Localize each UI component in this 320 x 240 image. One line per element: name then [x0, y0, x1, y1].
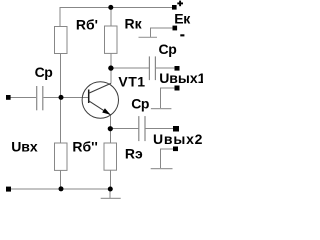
svg-text:Uвых1: Uвых1: [159, 70, 203, 86]
svg-text:Rб'': Rб'': [72, 139, 97, 155]
svg-text:Cр: Cр: [159, 41, 177, 57]
svg-text:Cр: Cр: [131, 96, 149, 112]
svg-text:Uвых2: Uвых2: [153, 131, 203, 147]
svg-text:VT1: VT1: [118, 73, 145, 89]
svg-text:Cр: Cр: [35, 64, 53, 80]
svg-text:Eк: Eк: [174, 11, 191, 27]
svg-text:Rк: Rк: [125, 15, 143, 31]
svg-text:Rб': Rб': [76, 17, 98, 33]
svg-text:Rэ: Rэ: [125, 146, 143, 162]
svg-text:Uвх: Uвх: [11, 139, 38, 155]
